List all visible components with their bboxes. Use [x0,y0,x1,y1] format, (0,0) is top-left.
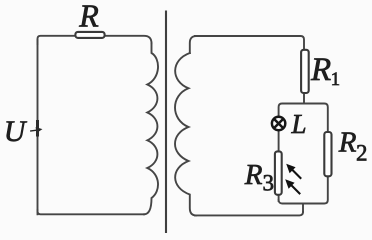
wire secondary bottom [195,212,303,216]
svg-text:U: U [4,115,28,148]
source arrow U [30,126,43,134]
resistor R [75,32,104,38]
wire top right to R1 [195,36,304,49]
resistor R2 [324,132,331,176]
transformer primary coil [144,43,158,214]
svg-text:R: R [310,52,331,88]
wire junction drop to secondary bottom [302,204,304,212]
wire left loop top [38,36,76,44]
transformer core [165,12,167,233]
wire secondary top [190,36,196,53]
wire left side [37,40,39,214]
svg-text:3: 3 [263,170,275,195]
wire top to primary [105,36,152,44]
svg-text:L: L [291,109,307,139]
resistor R3 (photoresistor) [275,151,282,194]
wire left loop bottom [38,210,145,214]
lamp L [272,117,285,130]
light arrows onto R3 [285,164,301,194]
wire bottom rail of parallel section [279,177,328,204]
svg-text:1: 1 [331,69,341,90]
svg-text:R: R [244,159,263,191]
wire top rail of parallel section [279,104,328,133]
wire R3 to bottom rail [278,195,280,201]
wire emphasis at source [36,120,39,137]
svg-text:R: R [78,0,99,33]
transformer secondary coil [175,53,196,215]
wire R1 to node rail [303,94,305,104]
wire lamp to R3 [278,131,280,150]
svg-text:R: R [338,127,357,159]
svg-text:2: 2 [356,140,368,165]
resistor R1 [301,50,309,93]
